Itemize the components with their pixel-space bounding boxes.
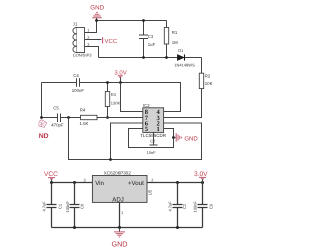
svg-text:100nF: 100nF [65,201,70,213]
svg-text:C2: C2 [182,203,187,209]
svg-text:XC6206P302: XC6206P302 [104,171,132,176]
wire Vout rail [147,182,203,184]
svg-text:C9: C9 [209,203,214,209]
svg-text:ND: ND [39,133,49,140]
node junction VCC/C1 [50,181,53,184]
diode D1 1N4148WS [174,48,195,67]
svg-text:4.7uF: 4.7uF [168,201,173,212]
svg-text:U5: U5 [148,189,153,195]
wire AN0 node down and trig wire [42,83,143,118]
capacitor C4 [72,73,85,93]
svg-text:R4: R4 [80,107,86,112]
node junction GND mid [172,136,175,139]
svg-text:C4: C4 [73,73,79,78]
wire connector pin1 to GND rail [85,21,97,33]
regulator U5 XC6206P302 [92,171,153,204]
svg-text:C5: C5 [53,105,59,110]
node junction C3 top [142,19,145,22]
timer IC2 TLC555CDR [136,103,171,138]
node junction 3.0V/C9 [201,181,204,184]
capacitor C1 [41,183,62,228]
wire ADJ pin down [119,202,121,227]
svg-text:1N4148WS: 1N4148WS [174,62,195,67]
node junction C2 top [176,181,179,184]
node junction C2 bottom [176,226,179,229]
resistor R4 [80,107,98,126]
power VCC (top) [103,37,118,45]
svg-text:GND: GND [90,5,104,12]
svg-text:10K: 10K [205,81,213,86]
wire pin5 / C7 loop [129,129,174,148]
svg-text:+Vout: +Vout [128,180,144,187]
svg-text:470pF: 470pF [51,123,64,128]
node junction pin6/loop [109,158,112,161]
ground (top, net GND) [90,5,104,21]
svg-text:130K: 130K [111,100,121,105]
wire pin2 loop [69,118,202,160]
wire 3.0V rail (right segment to pin4 corner) [80,83,181,112]
connector J1 CON/SIP3 [73,22,92,58]
svg-text:1uF: 1uF [148,42,156,47]
resistor R1 [164,21,178,58]
svg-text:IC2: IC2 [143,103,150,108]
svg-text:1: 1 [87,27,89,32]
power 3.0V (mid) [114,70,126,83]
resistor R2 [199,73,212,88]
power VCC (bottom) [44,171,58,182]
wire connector pin3 down to lower wire [85,47,99,58]
svg-text:R2: R2 [205,74,211,79]
svg-text:2: 2 [151,177,153,182]
node junction R3 bottom [106,116,109,119]
resistor R3 [105,83,120,118]
svg-text:ADJ: ADJ [112,196,124,203]
wire down to R2 [201,58,203,74]
svg-text:C1: C1 [58,203,63,209]
svg-text:R3: R3 [111,92,117,97]
node junction ADJ/GND [118,226,121,229]
wire VCC rail to regulator [52,182,93,184]
wire 3.0V rail (left segment to C4) [42,82,77,84]
capacitor C5 [51,105,64,127]
svg-text:C6: C6 [80,203,85,209]
svg-text:GND: GND [184,135,198,142]
capacitor C6 [65,183,85,228]
svg-text:4.7uF: 4.7uF [41,201,46,212]
svg-text:CON/SIP3: CON/SIP3 [73,53,92,58]
svg-text:R1: R1 [172,30,178,35]
ground (mid, right of IC2) [174,133,199,142]
svg-text:100nF: 100nF [72,88,85,93]
node junction R3 top [106,81,109,84]
node junction pin1/GND [95,19,98,22]
capacitor C2 [168,183,188,228]
svg-text:C3: C3 [148,34,154,39]
node AN0 junction [40,116,43,119]
svg-text:100nF: 100nF [192,201,197,213]
capacitor C7 [147,132,158,155]
wire GND top rail [97,20,167,22]
svg-text:1M: 1M [172,40,178,45]
svg-text:1.6K: 1.6K [80,121,89,126]
node junction 3.0V mid [119,81,122,84]
svg-text:J1: J1 [73,22,78,27]
svg-text:VCC: VCC [105,38,118,45]
wire pin6 to trig net [111,123,136,160]
capacitor C3 [139,21,156,58]
wire lower horizontal (pin3 / C3 / R1 / D1 / R2) [99,57,202,59]
port ND (analog input flag) [39,120,49,140]
capacitor C9 [192,183,213,228]
svg-text:10nF: 10nF [147,150,157,155]
svg-text:D1: D1 [178,48,184,53]
node junction C3 bottom [142,56,145,59]
node junction C5/R4 [67,116,70,119]
svg-text:GND: GND [112,240,128,249]
node junction R1 bottom [165,56,168,59]
power 3.0V (bottom right) [194,171,208,183]
svg-text:3: 3 [84,177,86,182]
ground (bottom, net GND) [112,228,128,249]
svg-text:1: 1 [121,210,123,215]
node junction C6 top [73,181,76,184]
svg-text:Vin: Vin [95,180,104,187]
wire R2 bottom to pin3 of IC2 [170,89,202,118]
wire bottom GND rail [52,227,203,229]
wire 3.0V to pin8 [121,83,143,112]
wire connector pin2 to VCC port [85,39,102,41]
node junction C6 bottom [73,226,76,229]
